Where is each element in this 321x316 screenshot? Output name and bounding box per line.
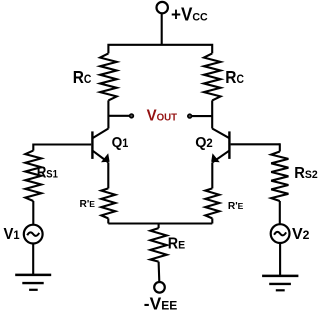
wire VOUT stub right [192, 115, 212, 117]
transistor Q1 [92, 129, 109, 163]
svg-text:R'E: R'E [80, 199, 96, 210]
wire rail to RE [158, 224, 160, 229]
label R'E right [228, 201, 244, 212]
label RE [168, 236, 185, 253]
wire Q1 base [33, 143, 91, 145]
wire Q2 emitter vertical [211, 162, 213, 188]
wire RS1 to V1 [32, 201, 34, 224]
wire VOUT stub left [108, 115, 129, 117]
resistor RC (left) [100, 53, 117, 100]
VCC terminal circle [157, 2, 168, 13]
wire Q2 base [231, 143, 280, 145]
label Q1 [112, 134, 129, 151]
svg-text:Q1: Q1 [112, 134, 129, 151]
label RS2 [294, 164, 317, 182]
wire RE to VEE terminal [158, 262, 161, 282]
junction dot left VOUT [130, 114, 134, 118]
VEE terminal circle [154, 282, 165, 293]
label R'E left [80, 199, 96, 210]
resistor RE [150, 228, 166, 262]
wire V1 to ground [32, 243, 34, 275]
svg-text:V2: V2 [292, 226, 310, 243]
label RS1 [37, 165, 58, 182]
resistor RS2 [271, 152, 288, 202]
node +VCC label [171, 4, 208, 25]
label RC left [73, 68, 92, 87]
wire emitter rail [108, 222, 212, 224]
wire VCC drop to top rail [161, 13, 163, 45]
wire R'E left to rail [107, 218, 109, 223]
resistor R'E (right) [205, 188, 219, 218]
wire RS2 to V2 [279, 201, 281, 224]
node -VEE label [144, 293, 177, 313]
label V1 [4, 225, 21, 243]
junction dot right VOUT [188, 114, 192, 118]
svg-text:RE: RE [168, 236, 185, 253]
wire left collector vertical [107, 100, 109, 128]
wire R'E right to rail [211, 218, 213, 223]
wire RS2 top corner [279, 143, 281, 151]
label RC right [225, 68, 244, 87]
resistor RC (right) [204, 53, 221, 100]
transistor Q2 [211, 129, 229, 163]
node VOUT label [147, 107, 177, 124]
wire V2 to ground [279, 243, 281, 276]
resistor R'E (left) [101, 188, 115, 218]
label V2 [292, 226, 310, 243]
source V1 [24, 225, 43, 244]
source V2 [271, 224, 290, 243]
ground (right) [262, 276, 298, 290]
wire top rail [108, 45, 212, 54]
wire right collector vertical [211, 100, 213, 128]
resistor RS1 [25, 151, 41, 201]
wire Q1 emitter vertical [107, 162, 109, 188]
svg-text:Q2: Q2 [195, 135, 213, 151]
ground (left) [15, 275, 51, 290]
svg-text:R'E: R'E [228, 201, 244, 212]
label Q2 [195, 135, 213, 151]
wire RS1 top corner [32, 144, 34, 151]
